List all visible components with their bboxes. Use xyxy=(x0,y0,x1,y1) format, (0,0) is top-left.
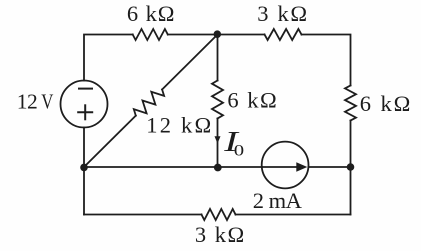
resistor R6 12 kΩ diagonal xyxy=(134,90,164,116)
resistor R5 3 kΩ bottom xyxy=(202,209,236,220)
wire middle vertical bottom xyxy=(217,119,219,168)
wire middle vertical top xyxy=(217,35,219,81)
svg-text:12: 12 xyxy=(17,90,38,114)
wire top-left segment xyxy=(84,35,133,81)
node dot right middle xyxy=(347,163,355,171)
current source arrowhead xyxy=(296,162,307,171)
svg-text:V: V xyxy=(41,91,53,114)
wire diagonal upper lead xyxy=(162,35,217,90)
wire top-middle segment xyxy=(168,34,265,36)
voltage source plus sign xyxy=(77,111,93,113)
node dot left middle xyxy=(80,164,88,172)
wire bottom-right segment xyxy=(236,214,351,216)
current source I1 circle xyxy=(262,142,309,189)
voltage source V1 circle xyxy=(61,81,108,128)
svg-text:6 kΩ: 6 kΩ xyxy=(360,91,412,116)
wire middle horizontal right xyxy=(308,166,350,168)
node dot top middle xyxy=(214,30,222,38)
wire left vertical to bottom xyxy=(83,167,85,215)
wire voltage source bottom to node A xyxy=(83,128,85,168)
wire middle horizontal left xyxy=(84,166,262,168)
svg-text:12 kΩ: 12 kΩ xyxy=(146,113,213,138)
wire diagonal lower lead xyxy=(84,116,136,167)
svg-text:3 kΩ: 3 kΩ xyxy=(257,1,309,26)
voltage source minus sign xyxy=(78,88,93,90)
resistor R2 3 kΩ top-right xyxy=(265,29,302,40)
resistor R1 6 kΩ top-left xyxy=(133,29,168,40)
svg-text:6 kΩ: 6 kΩ xyxy=(227,88,278,113)
svg-text:2 mA: 2 mA xyxy=(253,188,303,213)
svg-text:3 kΩ: 3 kΩ xyxy=(195,222,246,247)
wire right vertical lower xyxy=(350,121,352,215)
wire bottom-left segment xyxy=(84,214,202,216)
svg-text:6 kΩ: 6 kΩ xyxy=(127,1,175,26)
svg-text:0: 0 xyxy=(234,142,244,160)
resistor R4 6 kΩ right xyxy=(345,86,356,121)
current source arrow shaft xyxy=(263,166,298,168)
resistor R3 6 kΩ middle xyxy=(212,81,223,119)
node dot center middle xyxy=(214,164,222,172)
I0 arrowhead on middle branch xyxy=(215,136,221,143)
wire top-right corner down to right branch xyxy=(302,35,351,86)
